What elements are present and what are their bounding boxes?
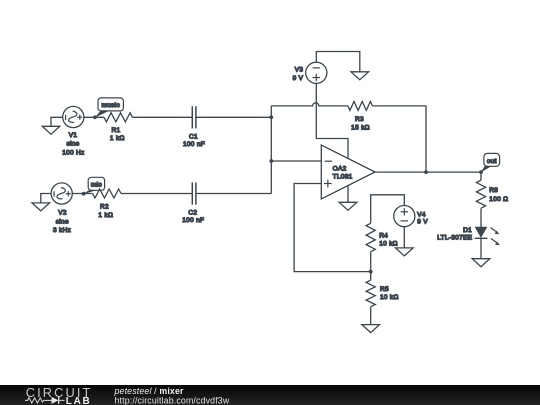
wire V3 plus to op-amp V+ pin xyxy=(316,83,348,158)
svg-text:3 kHz: 3 kHz xyxy=(53,227,71,234)
capacitor C1 100 nF xyxy=(183,106,205,148)
wire V4 branch xyxy=(371,195,405,224)
wire feedback top with hop over V3 wire xyxy=(271,103,348,106)
node mic flag xyxy=(82,177,105,195)
svg-text:9 V: 9 V xyxy=(293,75,304,82)
wire summing bus vertical xyxy=(270,106,272,194)
svg-text:100 Ω: 100 Ω xyxy=(489,196,508,203)
svg-text:10 kΩ: 10 kΩ xyxy=(380,294,399,301)
node out flag xyxy=(479,153,500,174)
svg-text:V4: V4 xyxy=(417,211,426,218)
svg-text:LTL-307EE: LTL-307EE xyxy=(437,234,472,241)
resistor R8 100 Ohm xyxy=(476,172,508,227)
wire V2 to node xyxy=(72,193,92,195)
CircuitLab logo xyxy=(25,385,92,405)
junction dot divider xyxy=(369,270,373,274)
svg-text:C2: C2 xyxy=(188,210,197,217)
ground (V4) xyxy=(396,248,414,256)
ground (V3) xyxy=(351,72,369,80)
op-amp OA2 TL081 xyxy=(321,145,375,199)
svg-text:R5: R5 xyxy=(380,286,389,293)
svg-text:15 kΩ: 15 kΩ xyxy=(351,124,370,131)
wire V1 to node xyxy=(84,116,104,118)
resistor R1 1 kOhm xyxy=(104,113,132,142)
resistor R4 10 kOhm xyxy=(366,223,398,271)
svg-text:sine: sine xyxy=(56,218,69,225)
svg-text:TL081: TL081 xyxy=(333,173,353,180)
svg-text:R4: R4 xyxy=(379,232,388,239)
junction dot minus input xyxy=(269,159,273,163)
svg-text:out: out xyxy=(487,158,497,165)
svg-text:9 V: 9 V xyxy=(417,219,428,226)
svg-text:R8: R8 xyxy=(489,187,498,194)
svg-text:V2: V2 xyxy=(58,210,67,217)
svg-text:mic: mic xyxy=(91,181,102,188)
svg-text:R3: R3 xyxy=(355,116,364,123)
svg-text:sine: sine xyxy=(66,141,79,148)
junction dot row1/bus xyxy=(269,115,273,119)
svg-text:100 nF: 100 nF xyxy=(183,141,205,148)
svg-text:C1: C1 xyxy=(189,133,198,140)
wire V4 to ground xyxy=(403,227,405,248)
resistor R3 15 kOhm xyxy=(348,101,373,131)
voltage source V1 sine 100 Hz xyxy=(62,106,84,156)
ground (LED) xyxy=(472,259,490,267)
wire op-amp output xyxy=(375,171,481,173)
junction dot feedback/output xyxy=(424,170,428,174)
wire R2 to C2 xyxy=(121,193,192,195)
attribution text xyxy=(114,386,230,405)
svg-text:D1: D1 xyxy=(463,227,472,234)
node music flag xyxy=(93,98,123,119)
svg-text:petesteel / mixer: petesteel / mixer xyxy=(114,386,185,396)
svg-text:V3: V3 xyxy=(295,67,304,74)
voltage source V4 9 V xyxy=(394,206,429,227)
footer bar xyxy=(0,385,540,405)
LED D1 LTL-307EE xyxy=(437,227,500,259)
ground (op-amp) xyxy=(339,202,357,210)
capacitor C2 100 nF xyxy=(182,182,204,224)
resistor R2 1 kOhm xyxy=(93,189,121,219)
svg-text:LAB: LAB xyxy=(66,396,92,405)
svg-text:OA2: OA2 xyxy=(333,166,347,173)
svg-text:R2: R2 xyxy=(100,204,109,211)
wire C1 to inverting bus xyxy=(196,116,271,118)
wire op-amp V- pin to ground xyxy=(347,186,349,203)
svg-text:100 Hz: 100 Hz xyxy=(62,149,84,156)
svg-text:1 kΩ: 1 kΩ xyxy=(110,135,125,142)
svg-text:1 kΩ: 1 kΩ xyxy=(98,212,113,219)
wire R3 to output column xyxy=(372,106,426,172)
svg-text:R1: R1 xyxy=(112,127,121,134)
svg-text:http://circuitlab.com/cdvdf3w: http://circuitlab.com/cdvdf3w xyxy=(115,395,230,405)
svg-text:100 nF: 100 nF xyxy=(182,217,204,224)
wire non-inverting input to divider xyxy=(294,184,371,272)
ground (left of V1) xyxy=(42,117,63,134)
wire C2 to inverting bus xyxy=(196,193,271,195)
voltage source V3 9 V xyxy=(293,62,327,83)
ground (R5) xyxy=(362,325,380,333)
voltage source V2 sine 3 kHz xyxy=(51,183,72,234)
resistor R5 10 kOhm xyxy=(366,272,399,325)
wire to inverting input xyxy=(271,160,321,162)
wire R1 to C1 xyxy=(132,116,192,118)
wire V3 top to ground xyxy=(316,52,360,72)
svg-text:V1: V1 xyxy=(69,132,78,139)
svg-text:music: music xyxy=(101,102,120,109)
svg-text:10 kΩ: 10 kΩ xyxy=(379,240,398,247)
ground (left of V2) xyxy=(32,194,51,211)
